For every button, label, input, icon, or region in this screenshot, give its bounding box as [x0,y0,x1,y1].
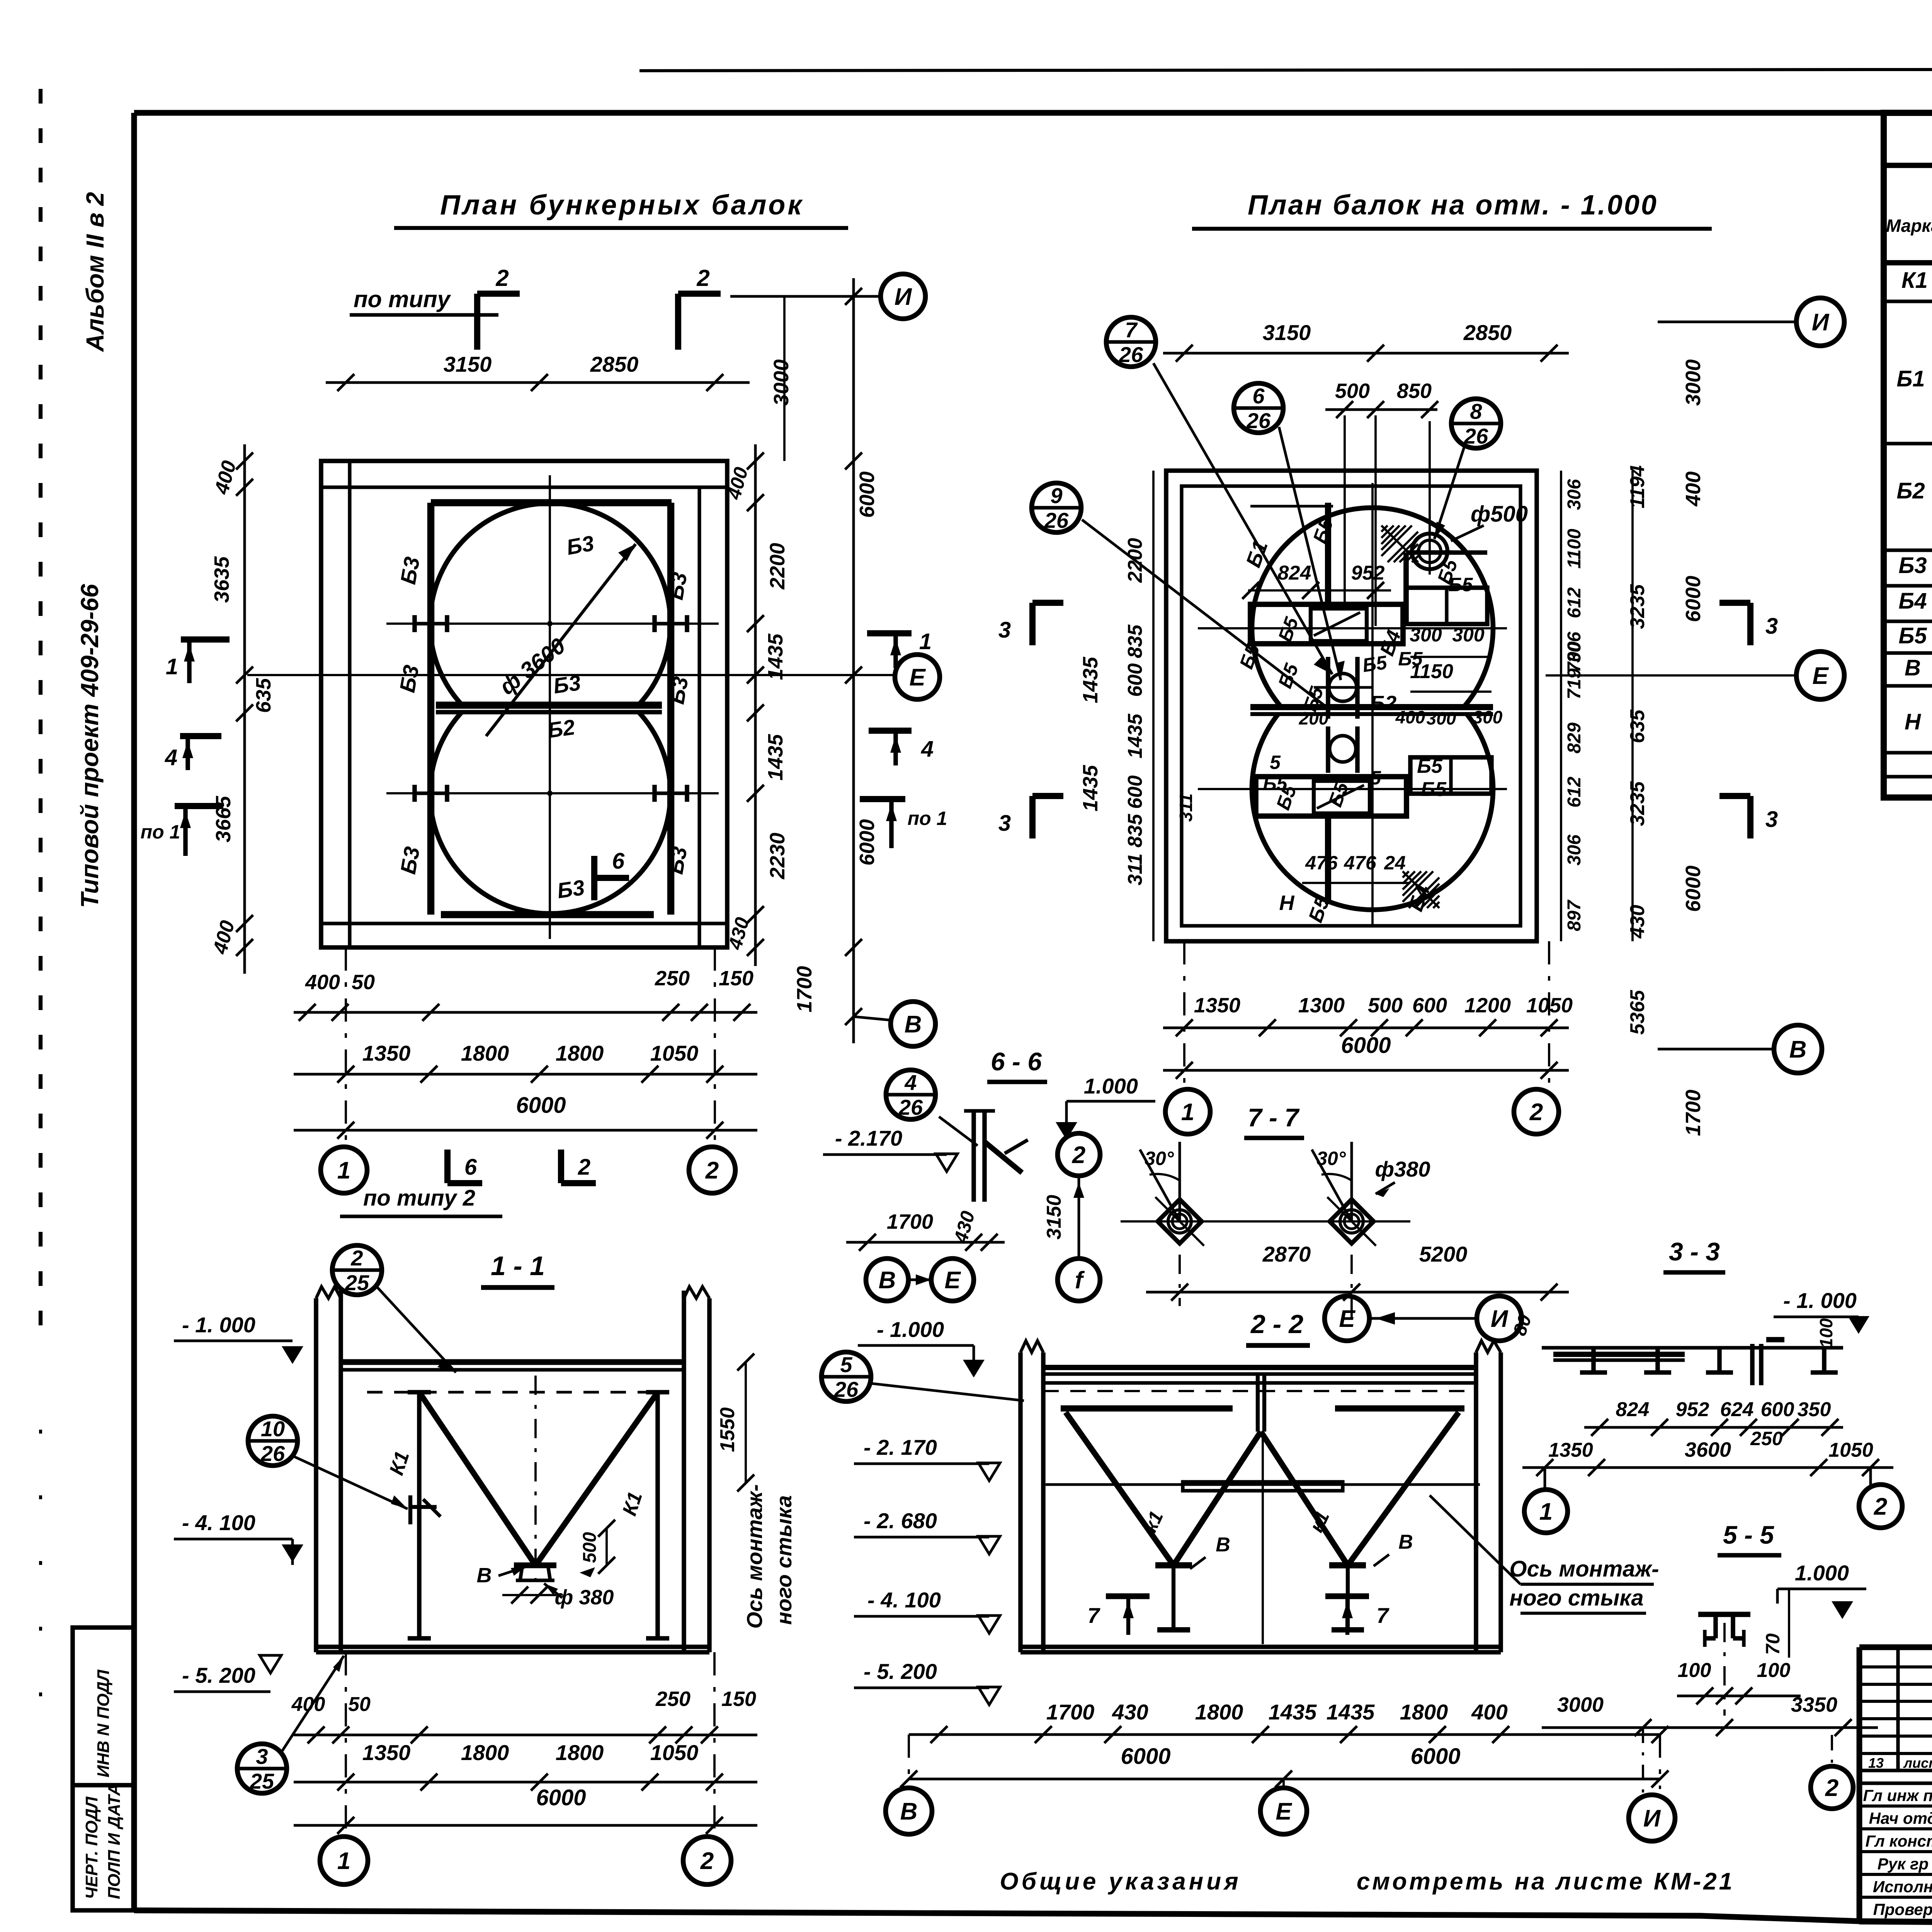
title block revision rows left [1859,1665,1932,1668]
svg-text:1800: 1800 [556,1041,604,1065]
section 7-7 left diamond [1158,1199,1202,1243]
plan 2 top dim line 3150/2850 [1163,352,1569,355]
svg-text:Нач отд: Нач отд [1869,1809,1932,1827]
svg-text:26: 26 [260,1441,285,1466]
plan 1 right flag po1 [860,796,905,802]
svg-text:400: 400 [1682,471,1705,507]
plan 1 bottom flag 2 [558,1150,564,1183]
svg-text:В: В [1398,1531,1413,1553]
svg-text:по 1: по 1 [908,808,947,829]
section 2-2 flag 7 right [1325,1594,1369,1599]
plan 2 inner wall lines [1182,486,1520,926]
section 1-1 left wall [314,1298,318,1652]
svg-text:2: 2 [350,1246,363,1270]
svg-text:1: 1 [1181,1099,1194,1126]
plan 2 left section flag 3 upper [1029,603,1036,645]
svg-text:по типу 2: по типу 2 [363,1185,475,1211]
svg-text:Б3: Б3 [396,555,424,586]
plan 1 lower circle horizontal axis [386,792,719,794]
plan 2 axis 1 dash line [1183,941,1185,1088]
svg-text:ного стыка: ного стыка [1509,1585,1643,1611]
left perforation dashed line [39,89,43,1333]
svg-text:26: 26 [898,1095,923,1119]
svg-text:1194: 1194 [1626,465,1649,509]
plan 1 top section flag 2 right [675,294,681,350]
section 2-2 detail circle 5/26 [821,1352,871,1401]
svg-text:250: 250 [1750,1428,1783,1449]
section 5-5 axis circles [1811,1766,1853,1809]
svg-text:- 2.170: - 2.170 [835,1126,902,1150]
svg-text:Н: Н [1279,891,1295,915]
svg-text:- 5. 200: - 5. 200 [864,1659,937,1684]
plan 1 axis I circle [881,274,925,319]
section 2-2 center post [1256,1374,1260,1432]
section 2-2 top slab lines [1043,1365,1476,1370]
svg-text:1800: 1800 [1195,1700,1243,1724]
plan 2 top beam line [1250,505,1333,508]
plan 1 bottom dim line 1350/1800/1800/1050 [294,1073,757,1076]
svg-text:6000: 6000 [516,1093,566,1118]
svg-text:3: 3 [998,617,1011,643]
svg-text:- 5. 200: - 5. 200 [182,1663,255,1687]
svg-text:13: 13 [1868,1755,1884,1771]
section 1-1 500 dim rotated [605,1528,608,1565]
svg-text:К1: К1 [1901,268,1928,293]
svg-text:- 1. 000: - 1. 000 [182,1313,255,1337]
svg-text:Б3: Б3 [565,531,596,560]
svg-text:Е: Е [1812,663,1829,689]
svg-text:476: 476 [1344,852,1377,874]
svg-text:6: 6 [1252,384,1265,408]
svg-text:6: 6 [612,849,625,874]
svg-text:1800: 1800 [556,1740,604,1765]
plan 2 dim extension verticals [1344,415,1346,603]
plan 1 circle center dots [547,621,553,626]
svg-text:1.000: 1.000 [1795,1561,1849,1585]
svg-text:1435: 1435 [1079,765,1102,811]
plan 1 left section flag 1 [181,636,230,643]
svg-text:5: 5 [1270,752,1281,773]
svg-text:Исполн: Исполн [1873,1878,1932,1896]
section 7-7 center line [1121,1220,1410,1223]
svg-text:1100: 1100 [1564,529,1585,569]
plan 1 beam B2 middle horizontal second [436,710,662,714]
drawing frame border [134,110,1932,116]
section 6-6 diagonal brace [985,1142,1022,1173]
section 2-2 flag 7 left [1106,1594,1150,1599]
section 2-2 right wall [1474,1352,1478,1652]
plan 1 upper bunker circle [430,503,670,705]
section 6-6 detail circle 4/26 [886,1070,935,1119]
section 7-7 axis E arrow I [1325,1296,1369,1341]
svg-text:6000: 6000 [1682,576,1705,622]
svg-text:Ось монтаж-: Ось монтаж- [1509,1556,1659,1582]
plan 2 axis circle 2 [1514,1089,1559,1134]
svg-text:7: 7 [1376,1603,1389,1628]
svg-text:Типовой проект 409-29-66: Типовой проект 409-29-66 [76,584,104,908]
plan 1 right section flag 4 [869,728,912,734]
svg-text:3150: 3150 [1043,1195,1065,1240]
svg-text:952: 952 [1676,1398,1709,1421]
svg-text:7: 7 [1087,1603,1100,1628]
svg-text:Альбом II в 2: Альбом II в 2 [81,192,109,352]
plan 1 interior flag 6 [591,856,597,900]
table row group lines full width [1884,299,1932,303]
section 1-1 right wall [682,1291,686,1652]
svg-text:1350: 1350 [362,1740,411,1765]
svg-text:2: 2 [1825,1775,1838,1801]
plan 1 lower bunker circle [430,712,670,913]
svg-text:- 1.000: - 1.000 [877,1317,944,1342]
svg-text:4: 4 [921,736,934,762]
svg-text:5 - 5: 5 - 5 [1723,1520,1774,1549]
plan 1 beam B3 right vertical [667,503,674,915]
svg-text:Б3: Б3 [664,675,693,706]
svg-text:5: 5 [840,1352,852,1377]
svg-text:150: 150 [719,967,753,990]
svg-text:2: 2 [700,1848,714,1874]
svg-text:В: В [477,1564,492,1587]
plan 2 right section flag 3 upper [1747,603,1753,645]
svg-text:26: 26 [1464,424,1488,448]
plan 1 beam B3 bottom horizontal [441,911,654,918]
svg-text:Б3: Б3 [556,875,586,903]
svg-text:624: 624 [1720,1398,1754,1421]
section 7-7 30deg wedge left [1179,1142,1181,1221]
svg-text:1350: 1350 [362,1041,411,1065]
svg-text:Е: Е [1339,1306,1355,1332]
section 1-1 splice symbol at leader end [408,1495,412,1524]
plan 2 hatch lower [1403,871,1409,878]
plan 2 axis B circle [1774,1025,1822,1073]
section 5-5 column symbol [1698,1612,1750,1617]
svg-text:3000: 3000 [1557,1693,1604,1716]
plan 2 detail circle 8/26 [1451,399,1501,448]
plan 1 left section flag po1 [175,803,223,809]
plan 2 axis circle 1 [1165,1089,1210,1134]
scan top edge line [639,69,1932,71]
svg-text:719: 719 [1564,668,1585,699]
svg-text:10: 10 [261,1417,285,1441]
svg-text:Б5: Б5 [1898,623,1927,648]
plan 2 detail circle 7/26 [1106,317,1156,367]
svg-text:1700: 1700 [793,966,816,1012]
svg-text:9: 9 [1050,483,1062,508]
svg-text:1: 1 [1539,1498,1553,1525]
plan 1 center vertical axis [549,475,551,939]
svg-text:Б1: Б1 [1896,366,1925,391]
section 1-1 axis circle 1 [320,1837,368,1884]
section 2-2 center thin line [1262,1437,1264,1644]
svg-text:70: 70 [1762,1633,1784,1655]
svg-text:1: 1 [919,629,932,654]
table title underline row [1884,163,1932,168]
svg-text:по типу: по типу [354,286,451,312]
svg-text:- 1. 000: - 1. 000 [1783,1288,1857,1313]
plan 1 outer wall rectangle [321,461,727,947]
svg-text:2: 2 [495,265,509,291]
svg-text:1: 1 [337,1157,350,1184]
svg-text:30°: 30° [1145,1148,1174,1169]
svg-text:ЧЕРТ. ПОДЛ: ЧЕРТ. ПОДЛ [82,1796,101,1899]
section 1-1 1550 dim rotated [745,1362,747,1483]
svg-text:635: 635 [252,678,275,713]
svg-text:И: И [1491,1306,1509,1332]
svg-text:Б5: Б5 [1421,778,1447,801]
plan 1 beam splice symbols [415,622,447,625]
section 2-2 hanging plates [1061,1405,1233,1412]
svg-text:476: 476 [1305,852,1338,874]
svg-text:2: 2 [578,1155,590,1180]
section 3-3 beam top line [1542,1346,1843,1349]
section 6-6 axis B-E circles [866,1259,908,1301]
svg-text:2: 2 [696,265,709,291]
section 3-3 I-beam end symbols [1591,1348,1596,1372]
svg-text:2: 2 [705,1157,719,1184]
plan 2 axis E line and circle [1546,674,1797,677]
plan 2 axis 2 dash line [1548,941,1550,1088]
plan 1 right dim line inner [754,444,757,966]
svg-text:3635: 3635 [210,556,233,603]
svg-text:- 2. 170: - 2. 170 [864,1435,937,1459]
svg-text:1435: 1435 [1327,1700,1375,1724]
section 1-1 detail circle 2/25 [332,1245,382,1295]
svg-text:300: 300 [1410,624,1442,646]
svg-text:2870: 2870 [1262,1242,1311,1266]
svg-text:50: 50 [352,971,375,994]
svg-text:6000: 6000 [1121,1744,1170,1769]
svg-text:600: 600 [1124,663,1146,697]
section 3-3 beam body [1553,1352,1685,1357]
svg-text:6000: 6000 [855,819,879,866]
svg-text:824: 824 [1278,562,1311,584]
svg-text:7 - 7: 7 - 7 [1248,1103,1300,1132]
svg-text:500: 500 [580,1532,600,1563]
svg-text:Б2: Б2 [1896,478,1925,503]
svg-text:1200: 1200 [1464,994,1511,1017]
svg-text:Б2: Б2 [1370,692,1396,715]
svg-text:1050: 1050 [650,1740,699,1765]
svg-text:952: 952 [1351,562,1385,584]
plan 2 detail circle 9/26 [1032,483,1081,532]
plan 1 upper circle horizontal axis [386,622,719,625]
section 2-2 tie beam [1046,1483,1480,1486]
svg-text:3: 3 [1765,807,1778,832]
section 1-1 axis dash lines [345,1652,347,1835]
svg-text:300: 300 [1473,707,1503,727]
svg-text:6000: 6000 [1341,1033,1391,1058]
svg-text:В: В [1789,1036,1807,1063]
section 1-1 K1 column right [655,1392,660,1638]
svg-text:лист: лист [1903,1755,1932,1771]
svg-text:3600: 3600 [1685,1438,1731,1461]
svg-text:3235: 3235 [1626,781,1649,826]
plan 2 vertical beam left upper [1325,503,1331,604]
plan 1 left dimension line [243,444,246,974]
svg-text:4: 4 [904,1070,917,1095]
svg-text:6000: 6000 [1410,1744,1460,1769]
plan 2 lower bunker circle [1252,714,1493,910]
plan 1 inner wall lines [348,461,351,947]
svg-text:829: 829 [1564,723,1585,753]
svg-text:500: 500 [1368,994,1403,1017]
svg-text:5200: 5200 [1419,1242,1468,1266]
svg-text:6: 6 [464,1155,477,1180]
svg-text:1350: 1350 [1548,1439,1593,1461]
svg-text:3000: 3000 [1682,359,1705,406]
svg-text:3: 3 [1765,614,1778,639]
svg-text:2 - 2: 2 - 2 [1250,1310,1303,1339]
element list table outline [1884,113,1932,798]
svg-text:250: 250 [655,967,690,990]
svg-text:400: 400 [1395,707,1425,727]
svg-text:100: 100 [1757,1659,1791,1682]
section 1-1 hopper V [419,1392,536,1565]
plan 2 detail circle 6/26 [1234,383,1283,433]
svg-text:635: 635 [1626,709,1649,743]
svg-text:2200: 2200 [766,543,789,590]
plan 2 axis I horizontal line and circle [1658,321,1797,323]
plan 1 beam B3 middle horizontal [436,702,662,709]
svg-text:1: 1 [166,654,178,679]
plan 1 axis E horizontal line [247,674,895,676]
svg-text:835: 835 [1124,624,1146,658]
svg-text:В: В [1216,1534,1230,1556]
section 7-7 30deg wedge right [1350,1142,1353,1221]
svg-text:1 - 1: 1 - 1 [491,1251,545,1281]
section 1-1 top slab [341,1359,684,1365]
svg-text:26: 26 [1044,508,1069,532]
svg-text:8: 8 [1470,399,1482,423]
svg-text:План бункерных балок: План бункерных балок [440,190,804,221]
svg-text:В: В [900,1798,918,1825]
svg-text:400: 400 [1471,1700,1507,1724]
svg-text:Гл конст: Гл конст [1866,1832,1932,1850]
plan 2 upper bunker circle [1252,508,1493,707]
svg-text:1: 1 [337,1848,350,1874]
svg-text:50: 50 [348,1693,371,1716]
plan 2 central band lower [1256,777,1406,816]
svg-text:1800: 1800 [461,1041,509,1065]
plan 2 left section flag 3 lower [1029,796,1036,838]
plan 2 circle axes thin lines [1198,627,1507,629]
svg-text:И: И [895,284,912,310]
svg-text:Общие указания: Общие указания [1000,1868,1241,1895]
svg-text:Б3: Б3 [1898,553,1927,578]
svg-text:Е: Е [944,1267,961,1294]
svg-text:Б5: Б5 [1448,574,1473,595]
section 1-1 axis circle 2 [683,1837,731,1884]
svg-text:- 4. 100: - 4. 100 [182,1510,255,1535]
svg-text:1300: 1300 [1298,994,1345,1017]
plan 2 right dim col 1 [1560,471,1562,941]
section 1-1 K1 column left [417,1392,422,1638]
plan 1 axis 1 vertical dash line [345,947,347,1146]
svg-text:1435: 1435 [1124,713,1146,759]
svg-text:6 - 6: 6 - 6 [991,1047,1042,1076]
plan 1 axis E circle [895,655,940,699]
section 2-2 bottom slab [1020,1645,1501,1649]
svg-text:3: 3 [998,811,1011,836]
svg-text:25: 25 [345,1270,369,1295]
svg-text:3000: 3000 [770,359,793,406]
plan 2 right section flag 3 lower [1747,796,1753,838]
section 6-6 flag circle 2 [1058,1133,1100,1176]
svg-text:3150: 3150 [1263,320,1311,345]
svg-text:В: В [905,1011,922,1038]
svg-text:1800: 1800 [461,1740,509,1765]
svg-text:3 - 3: 3 - 3 [1669,1237,1720,1266]
svg-text:ф 380: ф 380 [555,1586,614,1609]
plan 2 hatch upper [1381,526,1388,532]
svg-text:3150: 3150 [444,352,492,376]
svg-text:ИНВ N ПОДЛ: ИНВ N ПОДЛ [94,1670,113,1777]
svg-text:500: 500 [1335,379,1370,403]
plan 1 axis circle 1 [321,1147,367,1193]
svg-text:ф500: ф500 [1471,502,1528,527]
svg-text:Б3: Б3 [663,570,692,602]
svg-text:Н: Н [1905,709,1921,735]
svg-text:Провер: Провер [1873,1900,1932,1918]
svg-text:1550: 1550 [716,1407,739,1452]
section 1-1 bottom slab [316,1645,709,1649]
section 1-1 center dash axis [534,1376,537,1588]
svg-text:612: 612 [1564,777,1585,808]
title block outline [1859,1645,1932,1650]
svg-text:Б5: Б5 [1417,755,1443,777]
svg-text:Гл инж пр: Гл инж пр [1863,1786,1932,1804]
svg-text:824: 824 [1616,1398,1650,1421]
svg-text:26: 26 [1246,408,1271,433]
plan 1 left section flag 4 [180,733,221,739]
svg-text:2200: 2200 [1124,538,1146,583]
svg-text:600: 600 [1412,994,1447,1017]
section 6-6 flag circle f [1058,1259,1100,1301]
svg-text:1435: 1435 [1079,656,1102,703]
svg-text:ного стыка: ного стыка [772,1495,796,1625]
svg-text:1435: 1435 [764,734,787,781]
section 3-3 axis circles [1544,1468,1546,1490]
svg-text:250: 250 [655,1687,690,1711]
svg-text:1700: 1700 [1046,1700,1095,1724]
section 7-7 right diamond [1330,1199,1374,1243]
svg-text:4: 4 [165,745,177,770]
svg-text:по 1: по 1 [141,821,180,843]
svg-text:6000: 6000 [536,1785,586,1810]
svg-text:100: 100 [1678,1659,1711,1682]
svg-text:1435: 1435 [1269,1700,1317,1724]
svg-text:В: В [1905,655,1921,680]
svg-text:300: 300 [1427,708,1456,728]
svg-text:1435: 1435 [764,633,787,680]
svg-text:850: 850 [1397,379,1432,403]
svg-text:5365: 5365 [1626,990,1649,1035]
plan 2 manhole circle f500 [1412,534,1447,569]
plan 2 beam lines between circles [1250,704,1493,710]
svg-text:700: 700 [1564,641,1585,672]
svg-text:Б3: Б3 [395,663,423,694]
title block name rows [1859,1804,1932,1808]
svg-text:Рук гр: Рук гр [1878,1855,1929,1873]
svg-text:430: 430 [1626,905,1649,939]
plan 1 axis I horizontal line [730,295,881,298]
plan 1 diameter arrow f3600 [486,544,636,736]
svg-text:Б5: Б5 [1398,648,1423,670]
svg-text:6000: 6000 [855,471,879,518]
svg-text:Б5: Б5 [1361,651,1389,676]
plan 2 lower splice symbol circle [1330,736,1356,762]
svg-text:ф380: ф380 [1375,1157,1430,1181]
